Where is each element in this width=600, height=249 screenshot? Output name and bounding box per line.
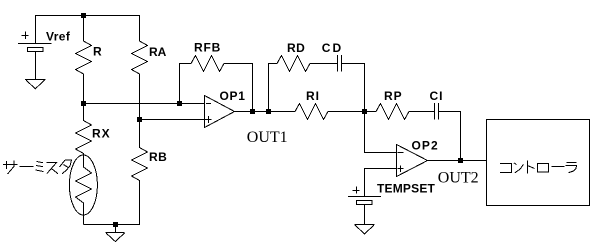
svg-text:Vref: Vref (46, 30, 71, 44)
svg-text:TEMPSET: TEMPSET (377, 182, 436, 196)
svg-text:RI: RI (306, 89, 320, 103)
svg-text:RB: RB (149, 150, 167, 164)
svg-text:RD: RD (287, 41, 305, 55)
svg-text:RFB: RFB (194, 41, 221, 55)
svg-text:OUT1: OUT1 (247, 129, 288, 146)
svg-text:OUT2: OUT2 (438, 170, 479, 187)
svg-text:OP2: OP2 (412, 139, 439, 153)
svg-text:RP: RP (384, 89, 403, 103)
svg-text:OP1: OP1 (220, 89, 246, 103)
svg-text:RX: RX (92, 127, 111, 141)
svg-text:RA: RA (149, 45, 167, 59)
svg-text:CI: CI (430, 89, 444, 103)
svg-text:R: R (93, 45, 102, 59)
svg-text:CD: CD (322, 41, 343, 55)
